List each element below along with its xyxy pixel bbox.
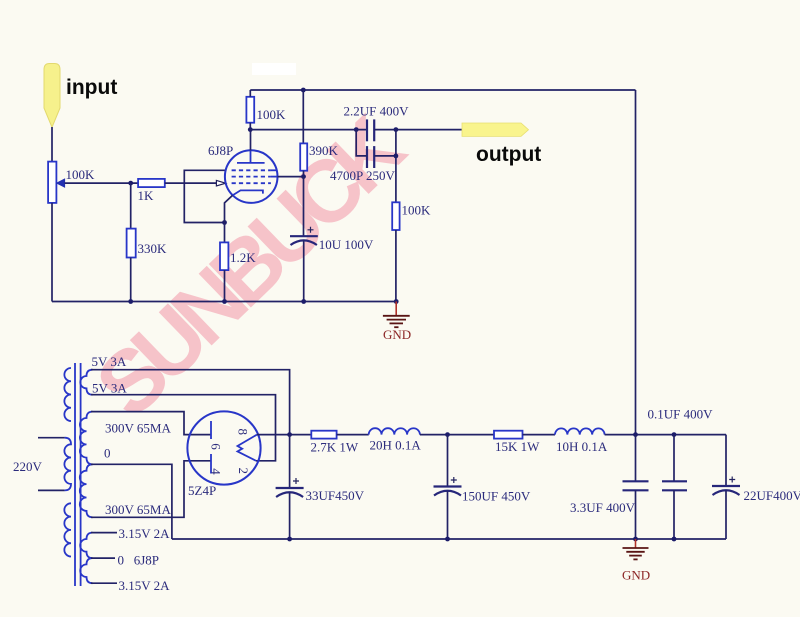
svg-text:2.7K 1W: 2.7K 1W xyxy=(311,440,359,455)
signal wire plate to coupling caps xyxy=(250,129,366,131)
junction 150UF ground xyxy=(445,537,450,542)
capacitor C3 4700P 250V xyxy=(367,146,374,168)
wire 3.15V lead 1 stub xyxy=(91,532,117,534)
svg-text:10U 100V: 10U 100V xyxy=(319,237,374,252)
wire 20H to 150UF node xyxy=(420,434,494,436)
svg-text:4700P 250V: 4700P 250V xyxy=(330,168,395,183)
secondary winding 300V lower xyxy=(80,464,93,517)
svg-text:output: output xyxy=(476,143,541,166)
svg-text:4: 4 xyxy=(209,468,224,475)
svg-text:0: 0 xyxy=(104,446,111,461)
resistor R4 1.2K xyxy=(220,242,228,270)
rectifier tube U2 5Z4P envelope xyxy=(187,411,260,484)
junction 0.1UF node xyxy=(672,432,677,437)
wire 0 tap to ground rail xyxy=(91,464,172,539)
junction 33UF ground xyxy=(287,537,292,542)
svg-text:GND: GND xyxy=(622,568,650,583)
plate node junction xyxy=(248,127,253,132)
secondary winding 3.15V upper xyxy=(80,533,92,559)
wire input to pot xyxy=(51,127,53,162)
svg-text:0 6J8P: 0 6J8P xyxy=(118,553,160,568)
svg-text:300V 65MA: 300V 65MA xyxy=(105,421,171,436)
wire 330K top xyxy=(130,183,132,229)
wire 100K load bottom xyxy=(395,230,397,302)
wire pot bottom to ground rail xyxy=(51,203,53,302)
potentiometer VR1 100K body xyxy=(48,162,56,203)
wire 300V upper to pin 6 xyxy=(91,412,211,435)
220V lead bottom xyxy=(38,489,65,491)
svg-text:5V 3A: 5V 3A xyxy=(92,354,127,369)
svg-text:100K: 100K xyxy=(257,107,287,122)
wire 1K to grid arrow xyxy=(165,182,217,184)
220V lead top xyxy=(38,437,65,439)
svg-text:2.2UF 400V: 2.2UF 400V xyxy=(344,104,410,119)
ground symbol lower xyxy=(623,539,649,559)
svg-text:3.3UF 400V: 3.3UF 400V xyxy=(570,500,636,515)
resistor R7 2.7K 1W xyxy=(311,431,336,439)
wire pin 8 to B+ node xyxy=(257,434,311,436)
wire 4700P left leg xyxy=(356,130,367,156)
node A junction xyxy=(128,181,133,186)
junction rectifier output xyxy=(287,432,292,437)
svg-text:5Z4P: 5Z4P xyxy=(188,483,216,498)
svg-text:15K 1W: 15K 1W xyxy=(495,439,540,454)
secondary winding 300V upper xyxy=(80,412,93,465)
transformer primary winding group 1 xyxy=(64,368,71,421)
wire screen node to 10U xyxy=(303,177,305,237)
resistor R2 1K xyxy=(138,179,165,187)
wire 100K top to B+ xyxy=(249,90,251,97)
junction 3.3UF node xyxy=(633,432,638,437)
cathode node junction xyxy=(222,220,227,225)
wire 5V3A lead 2 to pin 2 xyxy=(91,395,276,461)
output marker xyxy=(462,123,529,136)
transformer T1 core xyxy=(75,363,81,586)
tube anode lead wire xyxy=(250,130,252,151)
wire 3.15V lead 2 stub xyxy=(91,582,117,584)
wire 4700P right leg xyxy=(374,130,396,156)
svg-text:150UF 450V: 150UF 450V xyxy=(462,489,531,504)
junction 4700P right xyxy=(394,154,399,159)
wire to 100K output load xyxy=(395,156,397,202)
wire 390K feed vertical xyxy=(302,90,304,143)
feedback loop wire upper xyxy=(184,170,226,222)
wire 15K to 10H xyxy=(523,434,556,436)
junction 150UF node xyxy=(445,432,450,437)
tube anode bar xyxy=(237,150,265,163)
wire 1.2K bottom xyxy=(224,270,226,301)
svg-text:5V 3A: 5V 3A xyxy=(92,381,127,396)
svg-text:8: 8 xyxy=(235,429,250,436)
capacitor C6 3.3UF 400V xyxy=(623,435,649,539)
junction 1.2K rail xyxy=(222,299,227,304)
svg-text:1.2K: 1.2K xyxy=(230,250,256,265)
capacitor C5 150UF 450V xyxy=(434,435,462,539)
svg-text:220V: 220V xyxy=(13,459,43,474)
junction coupling left xyxy=(354,127,359,132)
capacitor C2 2.2UF 400V xyxy=(367,119,374,141)
wire 100K bottom to plate node xyxy=(249,123,251,130)
svg-text:20H 0.1A: 20H 0.1A xyxy=(370,438,422,453)
junction top 390K feed xyxy=(301,88,306,93)
ground symbol upper xyxy=(383,302,410,328)
secondary winding 3.15V lower xyxy=(80,558,92,583)
wire 330K bottom xyxy=(130,258,132,302)
transformer primary winding group 2 xyxy=(64,438,71,491)
junction 0.1UF ground xyxy=(672,537,677,542)
svg-text:input: input xyxy=(66,76,117,99)
svg-text:3.15V 2A: 3.15V 2A xyxy=(119,578,171,593)
top B+ wire xyxy=(250,89,635,91)
op tube U1 6J8P envelope xyxy=(225,150,278,203)
wire coupling right xyxy=(374,129,462,131)
wire B+ right vertical xyxy=(635,90,637,435)
wire 10H to B+ final xyxy=(605,434,726,436)
tube grid row 1 xyxy=(232,169,277,171)
svg-text:22UF400V: 22UF400V xyxy=(744,488,800,503)
svg-text:33UF450V: 33UF450V xyxy=(306,488,365,503)
wire 10U bottom xyxy=(303,241,305,302)
wire 300V lower to pin 4 xyxy=(91,461,211,518)
svg-text:6: 6 xyxy=(209,443,224,450)
tube grid row 2 xyxy=(232,176,278,178)
svg-text:390K: 390K xyxy=(309,143,339,158)
junction coupling right xyxy=(394,127,399,132)
svg-text:GND: GND xyxy=(383,327,411,342)
ground rail top section xyxy=(52,301,396,303)
transformer primary winding group 3 xyxy=(64,503,71,556)
wire G2 to 390K node xyxy=(278,176,304,178)
rectifier plate pin 4 bar xyxy=(210,454,212,474)
svg-text:100K: 100K xyxy=(66,167,96,182)
wire 5V3A lead 1 to rectifier cathode node xyxy=(91,370,290,435)
capacitor C7 0.1UF 400V xyxy=(662,435,687,539)
wire 2.7K to 20H xyxy=(337,434,369,436)
svg-text:100K: 100K xyxy=(402,203,432,218)
junction 330K rail xyxy=(128,299,133,304)
inductor L2 10H 0.1A xyxy=(555,428,605,434)
junction GND node xyxy=(633,537,638,542)
rectifier plate pin 6 bar xyxy=(210,421,212,439)
resistor R5 390K xyxy=(300,143,307,170)
tube cathode lead xyxy=(225,195,233,222)
potentiometer wiper arrow xyxy=(57,179,65,187)
tube grid row 3 xyxy=(232,182,271,184)
rail end junction xyxy=(394,299,399,304)
wire 0 6J8P lead stub xyxy=(91,557,115,559)
svg-text:6J8P: 6J8P xyxy=(208,143,233,158)
inductor L1 20H 0.1A xyxy=(369,428,420,434)
resistor R1 100K plate load xyxy=(246,97,254,123)
grid arrow into tube xyxy=(216,180,225,186)
svg-text:1K: 1K xyxy=(138,188,155,203)
input marker xyxy=(44,64,60,128)
wire 390K bottom xyxy=(303,171,305,177)
svg-text:2: 2 xyxy=(236,468,251,475)
tube cathode xyxy=(233,190,263,195)
junction 10U rail xyxy=(301,299,306,304)
wire cathode to 1.2K xyxy=(224,223,226,243)
rectifier heater zigzag xyxy=(238,435,258,461)
capacitor C1 10U 100V xyxy=(290,227,318,245)
resistor R8 15K 1W xyxy=(494,431,523,439)
resistor R3 330K xyxy=(127,229,136,258)
svg-text:330K: 330K xyxy=(138,241,168,256)
secondary winding 5V xyxy=(80,370,92,395)
capacitor C4 33UF450V xyxy=(276,435,304,539)
white patch xyxy=(252,63,296,75)
screen node junction xyxy=(301,174,306,179)
svg-text:10H 0.1A: 10H 0.1A xyxy=(556,439,608,454)
svg-text:0.1UF 400V: 0.1UF 400V xyxy=(648,407,714,422)
wire wiper to node A xyxy=(65,182,139,184)
svg-text:300V 65MA: 300V 65MA xyxy=(105,502,171,517)
bottom ground rail xyxy=(172,538,726,540)
capacitor C8 22UF400V xyxy=(712,435,740,539)
resistor R6 100K output load xyxy=(392,202,399,230)
svg-text:3.15V 2A: 3.15V 2A xyxy=(119,526,171,541)
